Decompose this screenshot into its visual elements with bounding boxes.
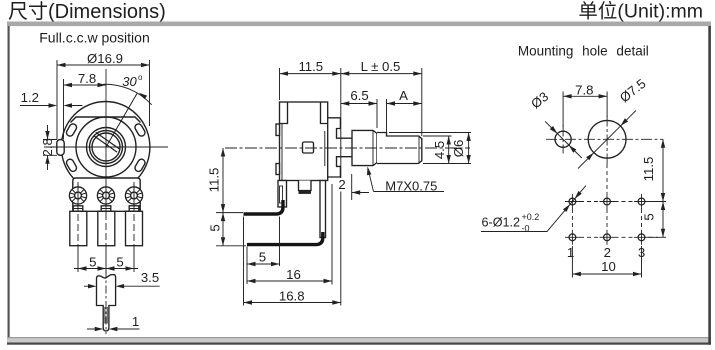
svg-text:o: o	[138, 73, 143, 82]
side view centerline	[225, 147, 470, 149]
legs	[278, 181, 287, 208]
body inner wall lines	[282, 124, 325, 181]
svg-text:2.8: 2.8	[40, 138, 55, 156]
svg-text:4.5: 4.5	[432, 141, 447, 159]
svg-text:1.2: 1.2	[21, 90, 39, 105]
svg-text:30: 30	[122, 74, 137, 89]
shaft circle	[92, 133, 120, 161]
svg-text:A: A	[399, 88, 408, 103]
shaft with flat	[377, 133, 422, 164]
svg-text:16: 16	[286, 267, 301, 282]
center square boss	[303, 142, 314, 153]
svg-text:-0: -0	[522, 224, 530, 234]
locating tab (left)	[57, 140, 64, 156]
terminal crimps and legs	[73, 206, 139, 211]
svg-text:5: 5	[208, 224, 223, 231]
svg-text:Ø16.9: Ø16.9	[87, 51, 123, 66]
terminal 1	[69, 187, 86, 204]
svg-text:L ± 0.5: L ± 0.5	[361, 59, 401, 74]
45 degree diameter line Ø7.5	[578, 111, 636, 169]
terminal centerline stubs	[78, 181, 134, 206]
svg-text:单位(Unit):mm: 单位(Unit):mm	[578, 1, 703, 23]
svg-text:3.5: 3.5	[141, 270, 159, 285]
svg-text:Full.c.c.w position: Full.c.c.w position	[39, 29, 149, 45]
shaft tip outline	[97, 275, 116, 331]
svg-text:2: 2	[338, 177, 345, 192]
bushing hole Ø7.5	[588, 120, 626, 158]
ear cutout top-right	[134, 123, 147, 138]
svg-text:11.5: 11.5	[641, 157, 656, 182]
svg-text:尺寸(Dimensions): 尺寸(Dimensions)	[8, 0, 166, 23]
threaded bushing	[352, 130, 377, 165]
circle centerlines (dashed)	[546, 116, 663, 165]
svg-text:16.8: 16.8	[279, 289, 305, 304]
ring circles	[87, 128, 126, 167]
svg-text:2: 2	[604, 245, 611, 260]
terminal holes 6x	[569, 198, 645, 241]
svg-text:5: 5	[116, 255, 123, 270]
svg-text:5: 5	[89, 255, 96, 270]
pot body side outline	[280, 102, 328, 181]
svg-text:7.8: 7.8	[78, 71, 96, 86]
left side lugs	[276, 124, 280, 136]
right side mounting plate profile	[328, 118, 352, 177]
svg-text:6-Ø1.2: 6-Ø1.2	[482, 216, 521, 230]
terminal block	[73, 178, 140, 211]
svg-text:7.8: 7.8	[575, 82, 593, 97]
bent terminal wire upper	[244, 200, 284, 214]
svg-text:11.5: 11.5	[298, 59, 323, 74]
cover plate top chord	[71, 117, 141, 123]
svg-text:1: 1	[567, 245, 574, 260]
ear cutout top-left	[65, 123, 78, 138]
shaft slot	[94, 132, 120, 152]
svg-text:+0.2: +0.2	[522, 212, 540, 222]
ear cutout bottom-right	[134, 158, 147, 173]
bushing face line	[351, 130, 353, 165]
terminal 3	[125, 187, 142, 204]
notch dark bar	[299, 191, 312, 194]
svg-text:Mounting hole detail: Mounting hole detail	[518, 44, 649, 59]
long extension line at bushing base	[340, 68, 342, 306]
terminal 2	[97, 187, 114, 204]
pot body outline	[61, 102, 150, 193]
cover circle	[76, 117, 136, 177]
dimension Ø16.9	[57, 60, 150, 140]
ear cutout bottom-left	[65, 158, 78, 173]
dimension 7.8	[64, 79, 107, 140]
svg-text:1: 1	[132, 314, 139, 329]
30 degree pointer line	[106, 94, 137, 148]
pilot hole Ø3	[555, 131, 571, 147]
svg-text:Ø6: Ø6	[451, 140, 466, 158]
svg-text:5: 5	[259, 250, 266, 265]
svg-text:6.5: 6.5	[350, 88, 368, 103]
hole crosshair ticks	[565, 194, 649, 245]
svg-text:5: 5	[642, 213, 657, 220]
svg-text:11.5: 11.5	[207, 168, 222, 193]
bottom notch	[299, 181, 312, 191]
centerlines front view	[44, 69, 168, 213]
dashed connectors	[572, 164, 658, 237]
bent terminal wire lower	[247, 232, 323, 245]
svg-text:10: 10	[601, 259, 616, 274]
